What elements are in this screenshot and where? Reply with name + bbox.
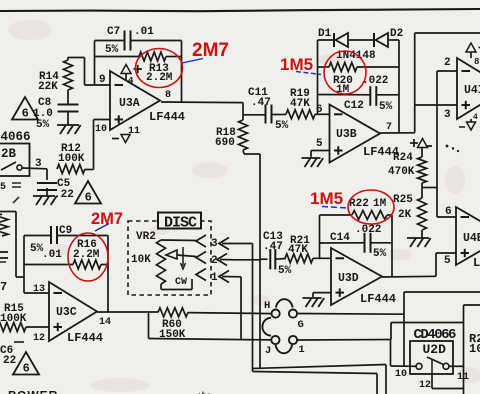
left edge trimmer fragment xyxy=(0,182,21,294)
op-amp U3C xyxy=(49,282,103,345)
svg-text:2B: 2B xyxy=(1,147,17,161)
connector pin G xyxy=(289,310,304,332)
svg-text:12: 12 xyxy=(33,333,45,344)
wire G to box xyxy=(297,313,404,316)
red text 1M5 a xyxy=(280,55,313,74)
wire C9/R16 feedback box xyxy=(24,236,108,313)
svg-text:POWER: POWER xyxy=(8,389,58,394)
pin 5 wire U4B xyxy=(436,253,456,276)
svg-text:L: L xyxy=(473,256,480,270)
svg-text:5: 5 xyxy=(0,182,6,193)
svg-text:DISC: DISC xyxy=(164,215,197,232)
capacitor C13 .47 xyxy=(263,231,292,277)
capacitor C8 1.0 xyxy=(33,90,79,131)
svg-text:5: 5 xyxy=(444,255,451,267)
svg-text:2M7: 2M7 xyxy=(192,40,229,61)
ground below C8 xyxy=(57,112,81,134)
svg-text:4: 4 xyxy=(473,113,478,122)
svg-text:D1: D1 xyxy=(318,28,332,40)
svg-text:.022: .022 xyxy=(355,224,381,236)
wire frame B xyxy=(391,323,464,340)
svg-text:2.2M: 2.2M xyxy=(73,249,100,261)
ground below R25 xyxy=(407,230,431,247)
resistor R15 100K xyxy=(0,303,49,332)
svg-text:7: 7 xyxy=(386,122,392,133)
svg-text:7: 7 xyxy=(0,280,7,294)
wire R18bus to C13 xyxy=(260,258,268,260)
capacitor C7 xyxy=(105,26,154,56)
op-amp U3D xyxy=(331,248,396,306)
triangle 6 ref b xyxy=(75,181,101,204)
capacitor C6 fragment xyxy=(0,342,24,367)
wire U3D output xyxy=(382,275,436,278)
svg-text:CW: CW xyxy=(175,277,187,288)
wire R18 bus to H row xyxy=(259,154,261,369)
svg-text:47K: 47K xyxy=(290,98,310,110)
svg-text:4: 4 xyxy=(128,76,134,86)
svg-text:5%: 5% xyxy=(278,265,292,277)
DISC dashed box xyxy=(128,221,211,295)
op-amp U4A xyxy=(457,58,480,119)
svg-text:2: 2 xyxy=(211,255,218,267)
svg-text:U3B: U3B xyxy=(336,128,357,141)
svg-text:9: 9 xyxy=(99,74,106,86)
svg-text:5%: 5% xyxy=(105,44,119,56)
resistor R19 47K xyxy=(286,88,315,119)
svg-text:H: H xyxy=(264,300,270,312)
svg-text:J: J xyxy=(265,345,271,357)
pin 13 wire U3C xyxy=(24,284,49,295)
wire to C11 xyxy=(243,114,265,116)
pin 14 label xyxy=(99,317,111,328)
svg-text:.01: .01 xyxy=(134,26,154,38)
IC U2D box xyxy=(410,341,453,374)
wire node pin 9 xyxy=(85,74,111,86)
pin 10 label xyxy=(395,369,407,380)
svg-text:C12: C12 xyxy=(344,100,364,112)
connector pin H xyxy=(264,300,280,318)
wiper arrow VR2 xyxy=(166,247,196,288)
wire outer box top xyxy=(404,292,480,366)
red circle R22 xyxy=(348,190,394,224)
svg-text:47K: 47K xyxy=(288,244,308,256)
wire R14 top to pin 9 xyxy=(68,57,85,85)
svg-text:22: 22 xyxy=(3,355,16,367)
wire C7/R13 feedback box xyxy=(95,41,182,104)
red circle R16 xyxy=(68,233,108,281)
pin 5 wire U3B ground xyxy=(302,138,330,167)
svg-text:12: 12 xyxy=(419,380,431,391)
wire U4A pin2 xyxy=(437,57,457,217)
red text 2M7 b xyxy=(91,210,123,228)
svg-text:U4I: U4I xyxy=(464,84,480,97)
red text 1M5 b xyxy=(310,189,343,208)
pin ground U3D plus xyxy=(303,293,332,307)
svg-text:5%: 5% xyxy=(373,248,387,260)
svg-text:R25: R25 xyxy=(393,194,413,206)
capacitor C14 .022 xyxy=(330,224,387,260)
wire R12 to pin10 xyxy=(85,169,94,171)
pin 3 label U4A xyxy=(444,109,451,121)
svg-text:1: 1 xyxy=(211,272,218,284)
text POWER sliver xyxy=(8,389,211,394)
svg-text:5%: 5% xyxy=(36,119,50,131)
svg-text:U3A: U3A xyxy=(119,97,140,110)
connector pin J xyxy=(265,336,280,357)
blue line b xyxy=(296,72,321,75)
svg-text:U3D: U3D xyxy=(338,272,359,285)
svg-text:3: 3 xyxy=(211,238,218,250)
power U4A bottom xyxy=(459,113,478,130)
svg-text:470K: 470K xyxy=(388,166,415,178)
speck marks xyxy=(427,145,459,152)
capacitor C12 .022 xyxy=(344,75,393,113)
svg-text:22K: 22K xyxy=(38,81,58,93)
wire bottom run B xyxy=(253,372,378,394)
pin 2 DISC xyxy=(211,254,260,268)
svg-text:U3C: U3C xyxy=(56,306,77,319)
svg-text:10: 10 xyxy=(469,342,480,356)
svg-text:D2: D2 xyxy=(390,28,403,40)
diode D2 xyxy=(374,28,403,47)
svg-text:.47: .47 xyxy=(251,97,271,109)
pin 12 wire U2D xyxy=(419,374,464,391)
svg-text:5: 5 xyxy=(316,138,323,150)
pin 6 wire U4B xyxy=(437,206,456,218)
op-amp U3A xyxy=(110,71,185,130)
svg-text:690: 690 xyxy=(215,137,235,149)
pot terminal chevrons xyxy=(196,235,206,281)
op-amp U3B xyxy=(330,105,400,163)
wire R19 to pin 6 xyxy=(315,104,330,116)
wire U3B output xyxy=(380,33,480,133)
blue line d xyxy=(322,207,348,209)
svg-text:LF444: LF444 xyxy=(149,110,185,124)
DISC label box xyxy=(158,213,201,232)
blue line a xyxy=(182,59,203,64)
IC CD4066 U2B box xyxy=(0,130,31,176)
resistor R20 1M xyxy=(329,63,357,97)
resistor R25 2K xyxy=(393,194,427,230)
resistor R60 150K xyxy=(158,308,188,341)
pin 11 wire U2D xyxy=(449,366,469,383)
resistor R16 2.2M xyxy=(73,239,101,269)
svg-text:C7: C7 xyxy=(107,26,120,38)
red circle R13 xyxy=(136,49,183,88)
svg-text:.47: .47 xyxy=(263,241,283,253)
svg-text:U2D: U2D xyxy=(423,342,447,357)
wire bottom run A xyxy=(253,365,387,394)
text R25 partial xyxy=(0,0,1,1)
svg-text:R24: R24 xyxy=(393,152,413,164)
pin 3 DISC xyxy=(211,238,253,251)
svg-text:6: 6 xyxy=(23,361,30,375)
wire I to U2D pin10 xyxy=(297,340,417,367)
power U4A top xyxy=(466,43,480,67)
svg-text:5%: 5% xyxy=(275,120,289,132)
pin 10 wire U3A xyxy=(94,120,111,170)
wire U3C out to J row xyxy=(149,312,272,340)
svg-text:3: 3 xyxy=(444,109,451,121)
resistor R14 22K xyxy=(38,60,73,93)
blue line c xyxy=(95,224,109,232)
resistor R18 690 xyxy=(215,115,260,154)
red text 2M7 a xyxy=(192,40,229,61)
resistor R21 47K xyxy=(285,235,313,263)
capacitor C9 .01 xyxy=(30,225,72,261)
svg-text:10: 10 xyxy=(95,124,107,135)
resistor R22 1M xyxy=(349,198,387,220)
triangle 6 ref c xyxy=(13,352,39,375)
svg-text:100K: 100K xyxy=(58,153,85,165)
resistor R26 box fragment xyxy=(464,305,480,394)
svg-text:LF444: LF444 xyxy=(360,292,396,306)
text 1N4148 xyxy=(336,50,376,62)
wire C14/R22 feedback box xyxy=(320,215,393,277)
wire D-R20-C12 box xyxy=(318,40,400,133)
wire top border line xyxy=(0,9,480,11)
svg-text:R22: R22 xyxy=(349,198,369,210)
wire C11 to R19 xyxy=(272,114,286,116)
svg-text:2.2M: 2.2M xyxy=(146,72,173,84)
switch U2B xyxy=(1,162,22,170)
wire left edge net xyxy=(0,212,24,278)
svg-text:6: 6 xyxy=(22,106,29,120)
diode D1 1N4148 xyxy=(318,28,348,47)
connector arcs xyxy=(262,299,292,353)
svg-text:2K: 2K xyxy=(398,209,412,221)
svg-text:6: 6 xyxy=(85,190,92,204)
red circle R20 xyxy=(324,51,366,94)
svg-text:14: 14 xyxy=(99,317,111,328)
svg-text:8: 8 xyxy=(474,57,479,67)
capacitor C5 .22 xyxy=(37,169,74,201)
wire R24-R25 junction xyxy=(422,183,437,198)
svg-text:D4066: D4066 xyxy=(0,130,31,144)
svg-text:.22: .22 xyxy=(54,189,74,201)
wire DISC pin3 to H xyxy=(252,244,254,372)
svg-text:·ь·: ·ь· xyxy=(197,390,211,394)
wire R21 to U3D minus xyxy=(313,257,331,259)
ground below C5 xyxy=(33,188,57,205)
power marker R24 xyxy=(410,139,428,158)
pin 12 label xyxy=(33,333,45,344)
resistor R24 470K xyxy=(388,152,427,183)
power pin 4 U3A xyxy=(121,65,142,87)
svg-text:5%: 5% xyxy=(379,101,393,113)
wire U3C output xyxy=(97,312,272,314)
text CD4066 xyxy=(414,327,457,343)
svg-text:2: 2 xyxy=(444,57,451,69)
svg-text:C14: C14 xyxy=(330,232,350,244)
svg-text:10K: 10K xyxy=(131,254,151,266)
resistor R13 2.2M xyxy=(139,52,173,84)
svg-text:1M: 1M xyxy=(373,198,387,210)
capacitor C11 .47 xyxy=(248,87,289,132)
svg-text:G: G xyxy=(298,319,304,331)
pin 1 DISC xyxy=(211,271,241,340)
wire U3A output xyxy=(161,102,243,115)
triangle 6 ref a xyxy=(12,97,38,120)
potentiometer VR2 10K xyxy=(131,240,196,290)
svg-text:LF444: LF444 xyxy=(67,331,103,345)
op-amp U4B xyxy=(456,207,480,270)
svg-text:1: 1 xyxy=(298,344,304,356)
svg-text:10: 10 xyxy=(395,369,407,380)
switch U2D xyxy=(416,357,449,374)
connector pin I xyxy=(289,336,305,356)
wire C13 to R21 xyxy=(276,258,287,261)
svg-text:VR2: VR2 xyxy=(136,231,156,243)
svg-text:1M5: 1M5 xyxy=(310,189,343,208)
pin 3 wire U2B xyxy=(23,158,48,170)
text VR2 xyxy=(136,231,156,243)
pin 7 label xyxy=(386,122,392,133)
pin 11 U3A neg supply xyxy=(112,126,140,143)
wire U4A pin3 feed xyxy=(415,104,457,106)
svg-text:.01: .01 xyxy=(42,249,62,261)
resistor R12 100K xyxy=(57,143,85,174)
svg-text:8: 8 xyxy=(165,90,171,101)
pin 8 label xyxy=(165,90,171,101)
svg-text:U4B: U4B xyxy=(463,232,480,245)
